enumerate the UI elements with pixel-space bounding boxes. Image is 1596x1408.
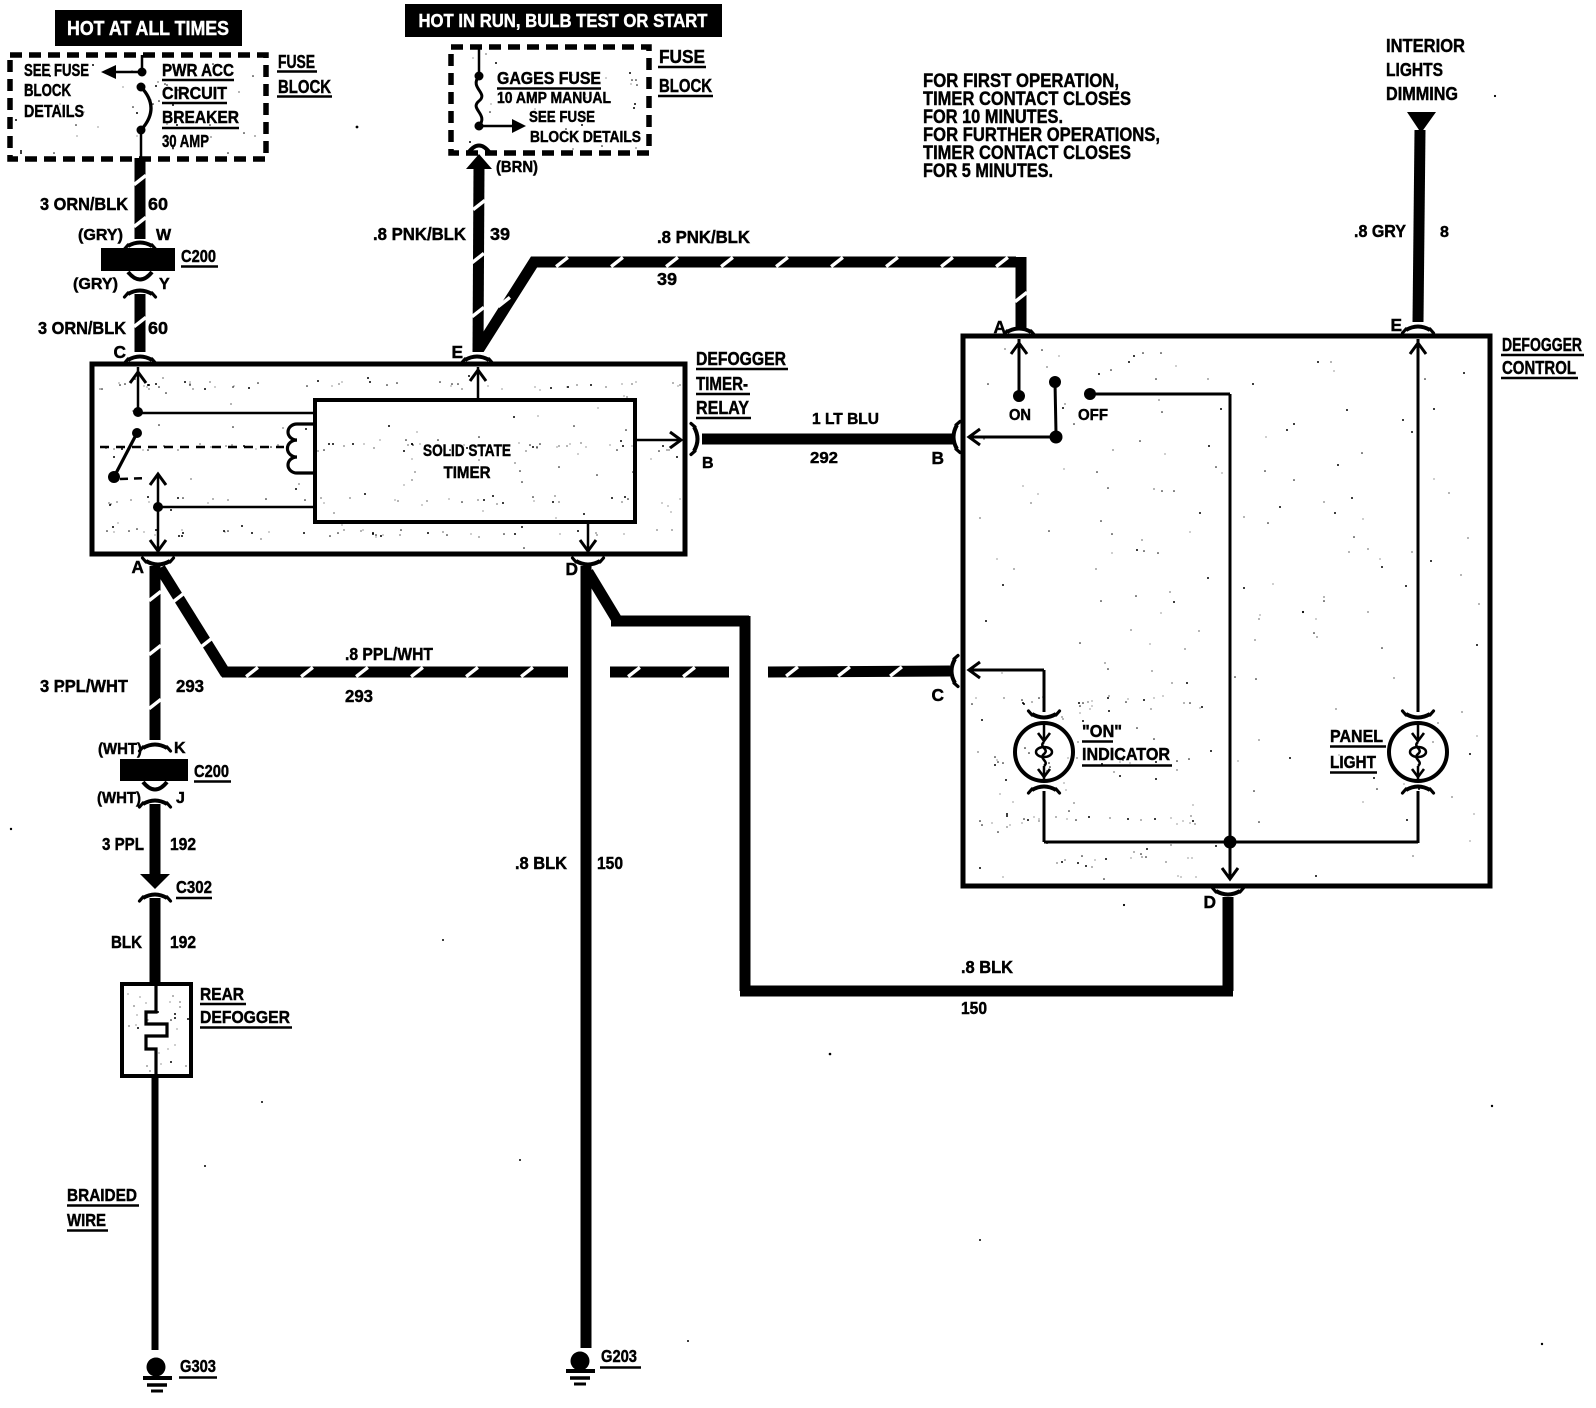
svg-text:DEFOGGER: DEFOGGER: [696, 349, 786, 369]
svg-text:BRAIDED: BRAIDED: [67, 1185, 137, 1205]
svg-text:60: 60: [148, 318, 168, 338]
svg-text:TIMER-: TIMER-: [696, 374, 748, 394]
connector C302 male arrow: [140, 874, 170, 889]
switch OFF contact node: [1084, 388, 1096, 400]
relay contact lever: [114, 433, 137, 477]
svg-text:.8 BLK: .8 BLK: [515, 853, 567, 873]
wire pin C to relay contact: [137, 367, 140, 413]
svg-text:192: 192: [170, 932, 196, 952]
wire from bus to circuit breaker: [141, 55, 144, 73]
arrow to fuse block details: [116, 71, 142, 74]
svg-text:INDICATOR: INDICATOR: [1082, 744, 1170, 764]
svg-text:(GRY): (GRY): [78, 227, 123, 244]
defogger control box: [963, 336, 1490, 886]
svg-text:SEE FUSE: SEE FUSE: [24, 60, 89, 80]
svg-text:RELAY: RELAY: [696, 398, 749, 418]
switch lever: [1055, 382, 1056, 433]
wire 1 LT BLU 292 (timer pin B to control pin B): [702, 434, 954, 445]
junction node A-leg: [153, 502, 163, 512]
wire 3 PPL/WHT 293 (timer pin A to C200), hatched: [150, 566, 161, 740]
wire panel light to bottom run: [1417, 791, 1420, 843]
wire ON indicator to bottom junction: [1043, 791, 1046, 842]
svg-text:.8 GRY: .8 GRY: [1354, 221, 1406, 241]
svg-text:BLK: BLK: [111, 932, 142, 952]
svg-text:PWR ACC: PWR ACC: [162, 60, 234, 80]
svg-text:3 PPL/WHT: 3 PPL/WHT: [40, 676, 128, 696]
wire control pin C to ON indicator: [969, 669, 1044, 672]
svg-text:E: E: [451, 342, 463, 362]
svg-text:Y: Y: [159, 276, 170, 293]
connector C302 female claw: [143, 895, 167, 899]
svg-text:150: 150: [961, 998, 987, 1018]
svg-text:DEFOGGER: DEFOGGER: [1502, 335, 1582, 355]
wire panel light to control pin E: [1417, 339, 1420, 712]
svg-text:FUSE: FUSE: [659, 47, 705, 67]
svg-text:150: 150: [597, 853, 623, 873]
svg-text:8: 8: [1440, 224, 1449, 241]
svg-text:DIMMING: DIMMING: [1386, 84, 1458, 104]
svg-text:.8 PNK/BLK: .8 PNK/BLK: [373, 224, 466, 244]
svg-text:BLOCK: BLOCK: [278, 77, 331, 97]
connector C200 (upper) body: [101, 248, 175, 271]
fuse block 1 (dashed box): [10, 55, 266, 159]
connector C200 pin J (WHT): [143, 782, 167, 790]
svg-text:LIGHTS: LIGHTS: [1386, 60, 1443, 80]
stray scan marks (decorative): [356, 126, 359, 129]
svg-text:LIGHT: LIGHT: [1330, 752, 1376, 772]
svg-text:FOR 5 MINUTES.: FOR 5 MINUTES.: [923, 161, 1053, 182]
lamp PANEL LIGHT: [1406, 714, 1430, 718]
svg-text:.8 BLK: .8 BLK: [961, 957, 1013, 977]
svg-text:10 AMP MANUAL: 10 AMP MANUAL: [497, 90, 611, 107]
svg-text:BLOCK: BLOCK: [24, 80, 71, 100]
wire relay contact to pin A: [150, 474, 166, 485]
svg-text:C302: C302: [176, 877, 212, 897]
defogger timer-relay box: [92, 364, 685, 554]
svg-text:DETAILS: DETAILS: [24, 101, 84, 121]
wire solid state timer to pin E: [477, 367, 480, 400]
relay actuating dashed link: [100, 446, 284, 449]
wire A-leg to solid state timer: [158, 506, 317, 509]
svg-text:W: W: [156, 227, 172, 244]
svg-text:CIRCUIT: CIRCUIT: [162, 83, 227, 103]
wire from bus to gages fuse: [478, 47, 481, 77]
svg-text:WIRE: WIRE: [67, 1210, 106, 1230]
relay contact pole node: [132, 428, 142, 438]
svg-text:SOLID STATE: SOLID STATE: [423, 442, 511, 460]
svg-text:SEE FUSE: SEE FUSE: [529, 109, 595, 126]
svg-text:REAR: REAR: [200, 984, 244, 1004]
svg-text:J: J: [176, 790, 185, 807]
svg-text:"ON": "ON": [1082, 721, 1122, 741]
svg-text:OFF: OFF: [1078, 407, 1108, 424]
svg-text:K: K: [174, 740, 186, 757]
wire .8 PNK/BLK 39 branch (timer pin E to control pin A), hatched: [479, 262, 1016, 349]
wire switch pole to pin B: [969, 436, 1056, 439]
svg-text:BLOCK: BLOCK: [659, 76, 712, 96]
connector bump at fuse block 2 bottom: [468, 146, 490, 154]
fuse GAGES FUSE 10 AMP: [476, 76, 482, 126]
wire .8 GRY 8 (to control pin E): [1418, 130, 1420, 322]
svg-text:.8 PNK/BLK: .8 PNK/BLK: [657, 227, 750, 247]
wire 3 ORN/BLK 60 (breaker to C200), hatched: [135, 158, 146, 239]
svg-text:BLOCK DETAILS: BLOCK DETAILS: [530, 129, 641, 146]
svg-text:(WHT): (WHT): [98, 741, 142, 758]
svg-text:FUSE: FUSE: [278, 52, 315, 72]
svg-text:DEFOGGER: DEFOGGER: [200, 1007, 290, 1027]
rear defogger grid box: [122, 984, 191, 1076]
svg-text:293: 293: [176, 676, 204, 696]
svg-text:C200: C200: [194, 761, 229, 781]
junction node at fuse top: [475, 72, 484, 81]
wire 3 PPL 192 (C200 to C302): [150, 804, 161, 874]
circuit breaker PWR ACC 30 AMP: [141, 87, 151, 130]
svg-text:1 LT BLU: 1 LT BLU: [812, 411, 879, 428]
wire .8 PNK/BLK 39 (fuse to timer pin E), hatched: [478, 167, 479, 352]
ground G303: [147, 1358, 166, 1377]
svg-text:D: D: [1204, 892, 1216, 912]
wire bottom junction to pin D: [1229, 842, 1232, 879]
ground G203: [571, 1352, 590, 1371]
svg-text:292: 292: [810, 450, 838, 467]
junction node (contact fixed): [133, 407, 143, 417]
svg-text:3 ORN/BLK: 3 ORN/BLK: [38, 318, 126, 338]
svg-text:E: E: [1390, 315, 1402, 335]
wire control pin A to switch ON contact: [1018, 339, 1021, 392]
svg-text:CONTROL: CONTROL: [1502, 358, 1576, 378]
wire OFF contact to pin D drop: [1090, 393, 1230, 396]
wire contact to coil top: [138, 412, 317, 415]
wire solid state timer to pin D: [587, 522, 590, 551]
lamp "ON" INDICATOR: [1032, 714, 1056, 718]
fuse block 2 (dashed box): [451, 47, 649, 153]
wire solid state timer to pin B: [635, 439, 681, 442]
svg-text:B: B: [932, 448, 944, 468]
svg-text:C200: C200: [181, 246, 216, 266]
svg-text:3 ORN/BLK: 3 ORN/BLK: [40, 194, 128, 214]
svg-text:(WHT): (WHT): [97, 790, 141, 807]
svg-text:HOT AT ALL TIMES: HOT AT ALL TIMES: [67, 18, 229, 40]
wire .8 PPL/WHT 293 (timer pin A to control pin C), hatched: [160, 568, 226, 674]
svg-text:G303: G303: [180, 1356, 216, 1376]
terminal arrow (BRN) into fuse block: [466, 154, 492, 169]
wire .8 BLK 150 (control pin D to timer ground run): [588, 572, 617, 620]
switch pole node: [1049, 376, 1061, 388]
svg-text:INTERIOR: INTERIOR: [1386, 36, 1465, 56]
rear defogger heating element: [146, 986, 167, 1074]
wire 3 ORN/BLK 60 (C200 to timer pin C), hatched: [135, 294, 146, 352]
solid state timer box: [315, 400, 635, 522]
svg-text:ON: ON: [1009, 407, 1031, 424]
relay coil: [287, 424, 317, 473]
svg-text:C: C: [114, 342, 126, 362]
svg-text:39: 39: [490, 224, 510, 244]
switch ON contact node: [1013, 390, 1025, 402]
svg-text:192: 192: [170, 834, 196, 854]
svg-text:HOT IN RUN, BULB TEST OR START: HOT IN RUN, BULB TEST OR START: [419, 10, 709, 31]
arrow to fuse block details (right): [479, 125, 513, 128]
svg-text:C: C: [932, 685, 944, 705]
connector C200 pin Y (GRY): [128, 272, 152, 280]
svg-text:30 AMP: 30 AMP: [162, 131, 209, 151]
svg-text:39: 39: [657, 269, 677, 289]
wire .8 BLK 150 (timer pin D to G203): [581, 566, 592, 1348]
arrow from interior lights dimming circuit: [1407, 112, 1436, 133]
svg-text:G203: G203: [601, 1346, 637, 1366]
svg-text:.8 PPL/WHT: .8 PPL/WHT: [345, 644, 433, 664]
bottom junction node: [1224, 836, 1237, 849]
svg-text:293: 293: [345, 686, 373, 706]
junction node pole-B: [1050, 431, 1063, 444]
svg-text:60: 60: [148, 194, 168, 214]
junction node at breaker top: [138, 68, 147, 77]
connector C200 (lower) body: [120, 759, 188, 781]
svg-text:GAGES FUSE: GAGES FUSE: [497, 68, 601, 88]
svg-text:BREAKER: BREAKER: [162, 107, 239, 127]
wire BLK 192 (C302 to rear defogger): [150, 898, 161, 986]
power feed banner HOT AT ALL TIMES: [55, 10, 242, 46]
svg-text:(BRN): (BRN): [496, 159, 538, 176]
braided wire (rear defogger to G303): [152, 1076, 159, 1350]
svg-text:TIMER: TIMER: [444, 464, 491, 482]
svg-text:(GRY): (GRY): [73, 276, 118, 293]
svg-text:3 PPL: 3 PPL: [102, 834, 144, 854]
svg-text:B: B: [702, 455, 714, 472]
svg-text:PANEL: PANEL: [1330, 726, 1383, 746]
ignition banner HOT IN RUN BULB TEST OR START: [405, 4, 722, 37]
